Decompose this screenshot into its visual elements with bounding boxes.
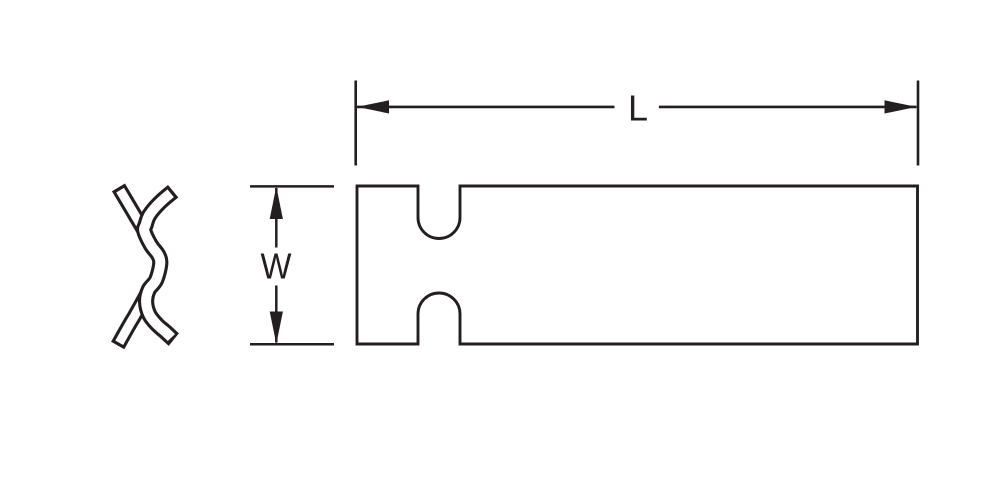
svg-text:L: L <box>628 88 648 129</box>
svg-text:W: W <box>261 246 292 287</box>
